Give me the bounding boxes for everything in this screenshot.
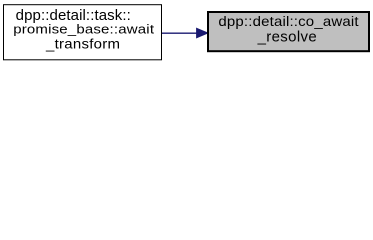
svg-text:_transform: _transform bbox=[45, 37, 120, 52]
svg-text:_resolve: _resolve bbox=[257, 30, 317, 46]
node box: dpp::detail::task::promise_base::await_transform (caller) bbox=[4, 5, 162, 60]
edge wire: call arrow shaft bbox=[162, 32, 198, 34]
svg-text:promise_base::await: promise_base::await bbox=[13, 22, 154, 37]
edge arrowhead bbox=[197, 28, 208, 37]
node box: dpp::detail::co_await_resolve (current, highlighted) bbox=[208, 12, 369, 51]
svg-text:dpp::detail::co_await: dpp::detail::co_await bbox=[218, 14, 358, 29]
